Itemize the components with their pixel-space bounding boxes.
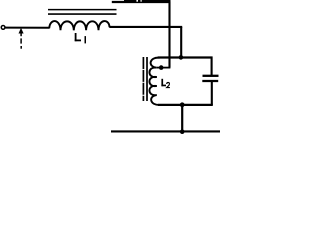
junction dot: V2 and tank top — [179, 55, 184, 60]
junction dot: rail — [180, 129, 185, 134]
label L2 — [161, 79, 170, 88]
capacitor C top lead — [211, 57, 213, 76]
input terminal circle — [1, 26, 5, 30]
cropped remnant above top wire — [124, 0, 171, 2]
L1 core line upper — [48, 9, 117, 11]
wire: L1 output to corner — [109, 26, 182, 28]
arrow shaft dash 1 — [20, 33, 22, 36]
L1 core line lower — [48, 13, 117, 15]
inductor L2 coil (4 loops + hooks) — [149, 58, 159, 105]
label L1 — [75, 33, 86, 43]
capacitor C bottom lead — [211, 82, 213, 105]
arrow head (input signal) — [19, 28, 24, 34]
wire: input to L1 — [5, 27, 49, 29]
wire: tank bottom down to rail — [181, 105, 183, 131]
L2 core line left — [142, 57, 144, 101]
wire: tank bottom — [158, 104, 213, 106]
capacitor C top plate — [203, 75, 219, 77]
wire: vertical V2 corner down to tank top — [180, 27, 182, 58]
wire: bottom rail — [111, 130, 220, 132]
wire: vertical V1 from top wire to L2 tap — [168, 2, 170, 68]
wire: tank top — [158, 56, 213, 58]
junction dot: tap on L2 — [159, 65, 164, 70]
wire: top output lead — [112, 1, 171, 3]
inductor L1 (5 humps) — [49, 21, 109, 30]
tap stub wire into L2 — [157, 67, 170, 69]
L2 core line right — [146, 57, 148, 101]
arrow shaft dash 3 — [20, 46, 22, 49]
junction dot: tank bottom — [180, 102, 185, 107]
capacitor C bottom plate — [202, 80, 218, 82]
arrow shaft dash 2 — [20, 38, 22, 43]
